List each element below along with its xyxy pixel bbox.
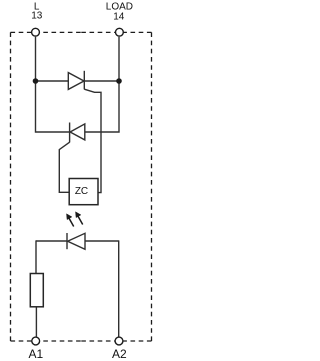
svg-text:14: 14 [113,12,125,23]
svg-text:ZC: ZC [75,186,88,197]
svg-text:A1: A1 [28,347,43,361]
svg-text:13: 13 [31,11,43,22]
svg-text:A2: A2 [112,347,127,361]
